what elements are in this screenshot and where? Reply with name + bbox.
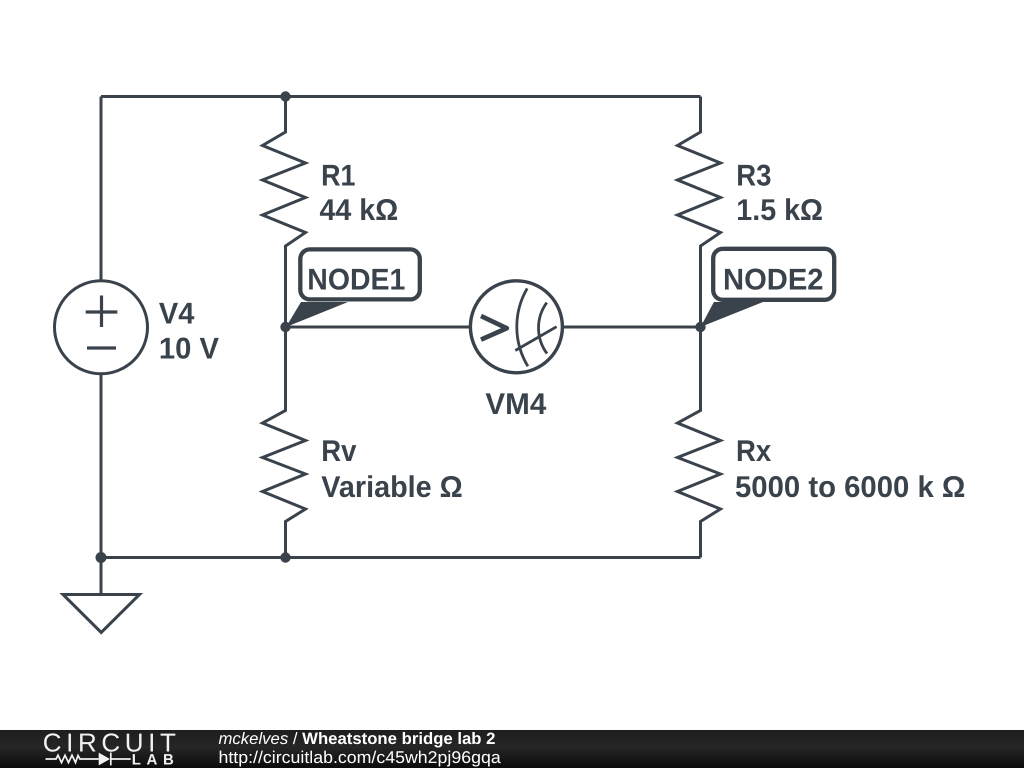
svg-text:Rx: Rx <box>736 435 771 468</box>
svg-text:NODE2: NODE2 <box>723 264 824 297</box>
svg-text:Variable Ω: Variable Ω <box>321 471 462 504</box>
svg-text:NODE1: NODE1 <box>307 264 405 297</box>
svg-text:Rv: Rv <box>321 435 356 468</box>
svg-text:LAB: LAB <box>132 751 180 768</box>
svg-text:V4: V4 <box>159 297 195 330</box>
svg-text:10 V: 10 V <box>159 333 219 366</box>
svg-text:R1: R1 <box>321 159 355 192</box>
svg-text:VM4: VM4 <box>485 388 546 421</box>
svg-text:5000 to 6000 k Ω: 5000 to 6000 k Ω <box>735 471 965 504</box>
svg-text:R3: R3 <box>736 159 771 192</box>
svg-text:mckelves / Wheatstone bridge l: mckelves / Wheatstone bridge lab 2 <box>219 730 496 748</box>
svg-text:44 kΩ: 44 kΩ <box>320 194 399 227</box>
svg-text:1.5 kΩ: 1.5 kΩ <box>736 194 823 227</box>
svg-text:http://circuitlab.com/c45wh2pj: http://circuitlab.com/c45wh2pj96gqa <box>219 748 502 767</box>
